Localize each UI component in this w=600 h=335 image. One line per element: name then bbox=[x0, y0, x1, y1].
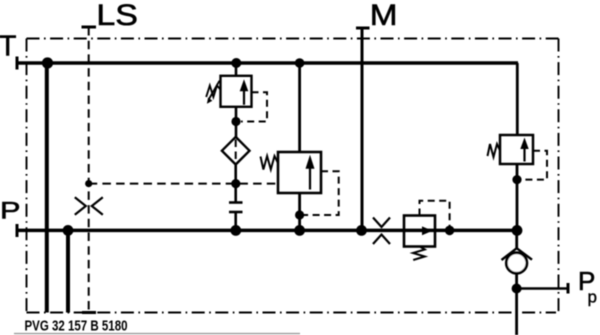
wire: T gallery (horizontal) bbox=[17, 61, 518, 65]
wire check valve to Pp / bottom edge bbox=[515, 273, 518, 335]
flow control U4 pilot line (dashed) bbox=[420, 201, 450, 227]
compensator U2: feed wire from T bbox=[298, 63, 301, 152]
junction dot U1/pilot bbox=[231, 117, 240, 126]
relief valve U1: feed wire from T bbox=[235, 63, 238, 76]
port tick LS at bottom boundary bbox=[82, 311, 96, 314]
wire P junction to check valve bbox=[515, 230, 518, 248]
junction dot P/right leg bbox=[512, 225, 523, 236]
junction dot U3/pilot bbox=[512, 175, 521, 184]
relief valve U1 adjust arrow bbox=[209, 81, 220, 100]
svg-text:M: M bbox=[370, 0, 398, 31]
filter F1 (diamond) bbox=[222, 137, 250, 165]
relief valve U1 spring bbox=[206, 86, 220, 98]
plug X on P line bbox=[373, 218, 390, 245]
wire U1 bottom port bbox=[235, 107, 238, 137]
wire plug to P bbox=[234, 212, 237, 230]
wire: Pp (horizontal) bbox=[517, 287, 568, 289]
wire: P down-leg to bottom edge bbox=[66, 230, 70, 312]
junction dot M/P bbox=[356, 225, 367, 236]
port M tick bbox=[356, 27, 370, 30]
flow control U4 body bbox=[404, 216, 435, 247]
svg-text:p: p bbox=[588, 288, 597, 307]
filter F1 element (dashed) bbox=[235, 140, 237, 163]
relief valve U3 body bbox=[500, 135, 533, 164]
junction dot P/U4 pilot bbox=[445, 226, 455, 236]
junction dot P/plug leg bbox=[230, 225, 241, 236]
compensator U2 arrow bbox=[309, 168, 311, 190]
wire F1 to plug bbox=[234, 165, 237, 203]
wire: LS (vertical, dashed) bbox=[88, 27, 90, 313]
wire: P gallery (horizontal) bbox=[17, 229, 517, 233]
compensator U2 body bbox=[278, 152, 321, 193]
junction dot T/down-leg bbox=[42, 57, 53, 68]
plug X on LS line bbox=[75, 197, 103, 214]
svg-text:LS: LS bbox=[96, 0, 137, 31]
junction dot U2/pilot bbox=[295, 210, 304, 219]
junction dot LS branch bbox=[85, 180, 92, 187]
subplate boundary (dash-dot frame) bbox=[27, 39, 559, 313]
compensator U2 pilot line (dashed) bbox=[304, 171, 339, 215]
check valve CV1 seat bbox=[502, 248, 533, 260]
relief valve U3 arrow bbox=[523, 148, 525, 162]
svg-text:T: T bbox=[0, 31, 16, 63]
flow control U4 spring bbox=[413, 247, 425, 260]
port Pp tick bbox=[567, 283, 570, 294]
check valve CV1 ball bbox=[506, 253, 527, 274]
junction dot Pp bbox=[512, 284, 522, 294]
wire: LS branch to compensator (dashed) bbox=[89, 183, 278, 185]
port T tick bbox=[16, 57, 19, 70]
relief valve U1 pilot line (dashed) bbox=[241, 92, 267, 121]
scan edge line bbox=[14, 333, 300, 335]
wire: M (vertical) bbox=[361, 28, 364, 230]
junction dot F1/LS branch bbox=[231, 179, 240, 188]
wire U3 bottom port bbox=[516, 164, 519, 230]
plug bar upper bbox=[229, 201, 243, 204]
wire U2 bottom port to P bbox=[298, 193, 301, 230]
port P tick bbox=[16, 224, 19, 237]
port LS tick bbox=[82, 26, 97, 29]
svg-text:PVG 32 157 B 5180: PVG 32 157 B 5180 bbox=[25, 318, 128, 334]
compensator U2 spring bbox=[261, 156, 279, 170]
flow control U4 arrow bbox=[406, 230, 423, 232]
relief valve U3 pilot line (dashed) bbox=[522, 151, 547, 180]
wire: T branch down to relief U3 bbox=[516, 63, 519, 135]
svg-text:P: P bbox=[0, 196, 20, 223]
junction dot P/down-leg bbox=[63, 225, 74, 236]
relief valve U1 arrow bbox=[243, 90, 245, 105]
plug bar lower bbox=[229, 211, 243, 214]
relief valve U3 spring bbox=[488, 144, 501, 157]
junction dot T/U1 bbox=[231, 58, 241, 68]
junction dot P/U2 bbox=[294, 225, 305, 236]
junction dot T/U2 bbox=[295, 58, 305, 68]
relief valve U1 body bbox=[221, 76, 252, 107]
wire: T down-leg to bottom edge bbox=[45, 63, 49, 313]
